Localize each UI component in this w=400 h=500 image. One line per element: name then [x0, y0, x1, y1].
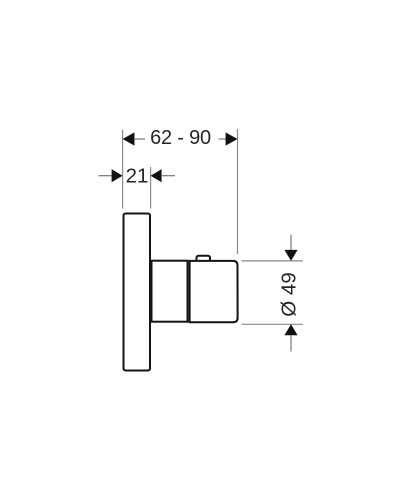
wall plate: [124, 214, 151, 371]
svg-text:62 - 90: 62 - 90: [150, 127, 211, 149]
arrow right (points right): [226, 132, 238, 145]
handle: [190, 261, 238, 322]
valve sleeve: [152, 261, 188, 322]
arrow (points left): [151, 169, 162, 182]
extension line left (wall plate face): [122, 130, 124, 209]
wire tail right: [219, 138, 227, 140]
arrow left (points left): [123, 132, 135, 145]
extension line dia top: [242, 260, 304, 262]
extension line 21 right: [150, 167, 152, 209]
arrow (points right): [112, 169, 123, 182]
wire tail top: [290, 235, 292, 250]
wire tail left: [134, 138, 145, 140]
dimension 21: [99, 165, 176, 188]
extension line 62-90 right: [237, 129, 239, 254]
dia dimension arrows: [284, 235, 297, 352]
dimension 62 - 90: [123, 127, 238, 149]
wire tail right: [161, 175, 175, 177]
svg-text:Ø 49: Ø 49: [278, 272, 301, 316]
wire tail left: [99, 175, 114, 177]
wire tail bottom: [290, 335, 292, 352]
button on handle: [197, 256, 211, 264]
arrow (points up): [284, 324, 297, 335]
arrow (points down): [284, 250, 297, 261]
extension line dia bottom: [242, 323, 304, 325]
svg-text:21: 21: [126, 165, 149, 188]
